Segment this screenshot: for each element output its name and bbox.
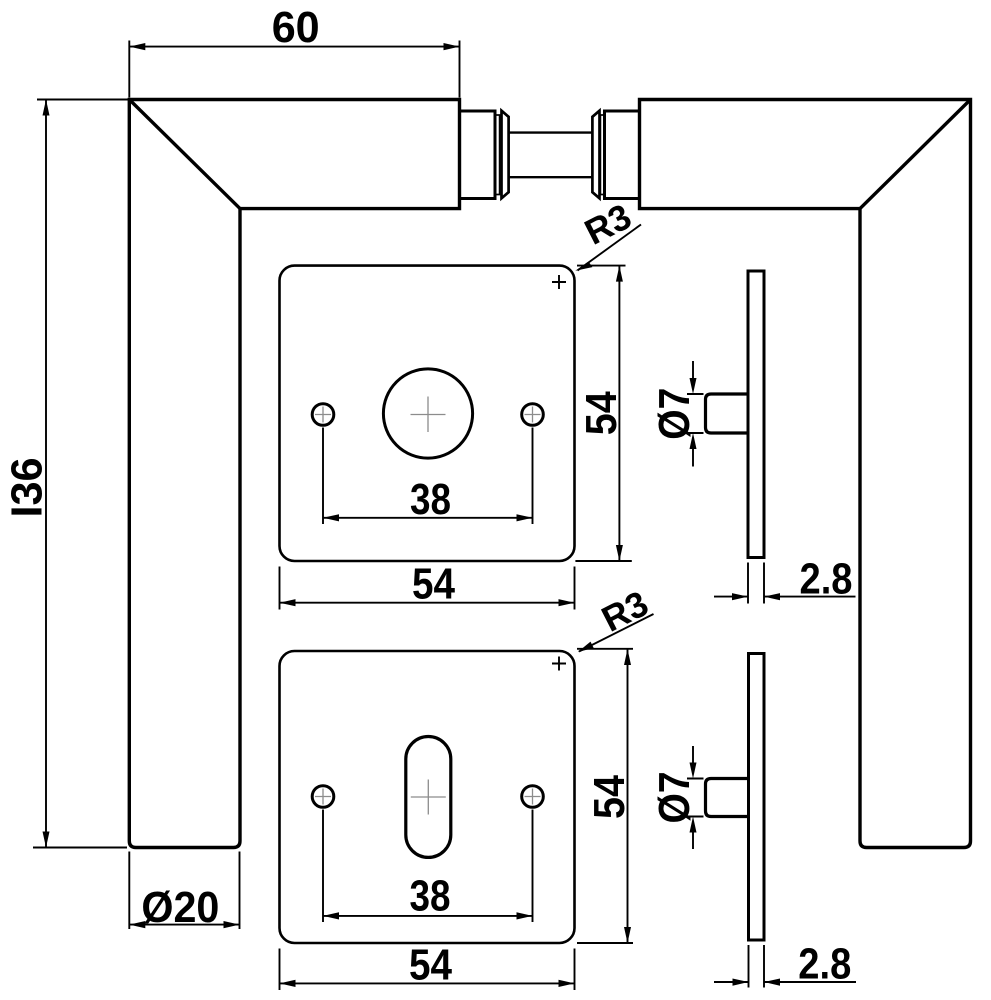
lower 2.8 arrowhead left xyxy=(733,979,749,986)
upper right screw hole crosshair xyxy=(525,407,541,423)
extension line diam20 left xyxy=(128,852,130,930)
upper rosette center hole circle xyxy=(383,369,472,458)
arrowhead 136 bottom xyxy=(43,832,50,848)
lower 2.8 extension left xyxy=(748,945,750,988)
svg-text:Ø7: Ø7 xyxy=(650,772,699,824)
lower right 54 extension bottom xyxy=(577,942,633,944)
arrowhead diam20 right xyxy=(224,921,240,928)
upper R3 leader xyxy=(578,225,642,271)
lower slot crosshair xyxy=(411,780,446,815)
lower rosette right screw hole xyxy=(522,786,544,808)
lower bottom 54 dimension line xyxy=(280,982,575,984)
upper 38 extension left xyxy=(322,428,324,525)
lower diam7 arrowhead bottom xyxy=(690,817,697,833)
upper rosette right screw hole xyxy=(522,404,544,426)
extension line 60 left xyxy=(128,41,130,98)
left handle neck xyxy=(460,111,496,199)
lower diam7 arrow line top xyxy=(692,746,694,764)
extension line diam20 right xyxy=(239,852,241,930)
upper 38 extension right xyxy=(532,428,534,525)
svg-text:54: 54 xyxy=(409,941,452,990)
arrowhead 136 top xyxy=(43,100,50,116)
lower 2.8 extension right xyxy=(763,945,765,988)
svg-text:I36: I36 xyxy=(2,458,51,518)
lower diam7 extension top xyxy=(687,778,704,780)
extension line 136 bottom xyxy=(33,847,127,849)
upper diam7 extension bottom xyxy=(687,432,704,434)
arrowhead diam20 left xyxy=(129,921,145,928)
svg-text:54: 54 xyxy=(585,775,634,819)
upper 2.8 dimension tail right xyxy=(764,596,856,598)
upper diam7 arrow line bottom xyxy=(692,448,694,467)
lower bottom 54 arrow right xyxy=(559,980,575,987)
left handle ring band xyxy=(495,115,499,195)
upper diam7 arrowhead top xyxy=(690,378,697,394)
lower right 54 arrow bottom xyxy=(624,927,631,943)
spindle top line xyxy=(509,131,593,133)
extension line 136 top xyxy=(37,99,128,101)
arrowhead 60 left xyxy=(129,43,145,50)
upper bottom 54 extension left xyxy=(279,567,281,610)
lower 2.8 arrowhead right xyxy=(764,979,780,986)
lower left screw hole crosshair xyxy=(315,789,331,805)
upper 2.8 extension left xyxy=(747,563,749,604)
upper right 54 extension bottom xyxy=(575,560,631,562)
svg-text:2.8: 2.8 xyxy=(798,940,851,989)
upper rosette left screw hole xyxy=(312,404,334,426)
right handle collar xyxy=(592,111,599,199)
upper side stub xyxy=(706,394,749,433)
upper bottom 54 extension right xyxy=(574,567,576,610)
upper diam7 arrow line top xyxy=(692,361,694,379)
upper diam7 extension top xyxy=(687,393,704,395)
svg-text:38: 38 xyxy=(410,475,451,524)
arrowhead 60 right xyxy=(444,43,460,50)
lower 38 extension left xyxy=(322,810,324,923)
upper 2.8 arrowhead right xyxy=(764,593,780,600)
lower 38 extension right xyxy=(532,810,534,923)
svg-text:38: 38 xyxy=(410,872,451,921)
lower diam7 arrowhead top xyxy=(690,763,697,779)
lower R3 leader xyxy=(579,614,654,652)
svg-text:60: 60 xyxy=(272,3,320,52)
upper 38 arrow right xyxy=(517,514,533,521)
lower 38 dimension line xyxy=(323,915,533,917)
upper 38 arrow left xyxy=(323,514,339,521)
upper right 54 arrow top xyxy=(616,266,623,282)
upper left screw hole crosshair xyxy=(315,407,331,423)
lower right 54 arrow top xyxy=(624,649,631,665)
svg-text:2.8: 2.8 xyxy=(800,554,853,603)
upper bottom 54 arrow right xyxy=(559,599,575,606)
upper right 54 extension top xyxy=(577,265,626,267)
upper right 54 arrow bottom xyxy=(616,545,623,561)
right handle neck xyxy=(605,111,640,199)
lower side plate xyxy=(749,654,765,941)
left handle mitre diagonal xyxy=(129,100,240,209)
left handle collar xyxy=(502,111,509,199)
right handle outline xyxy=(640,100,971,848)
lower right screw hole crosshair xyxy=(525,789,541,805)
lower rosette corner plus mark xyxy=(552,657,566,671)
right handle ring band xyxy=(600,115,604,195)
dimension line 136 xyxy=(45,100,47,848)
lower rosette plate xyxy=(280,651,575,943)
upper rosette plate xyxy=(280,266,575,561)
upper 2.8 extension right xyxy=(763,563,765,604)
upper rosette center crosshair xyxy=(411,397,446,433)
upper rosette corner plus mark xyxy=(552,275,566,289)
lower rosette left screw hole xyxy=(312,786,334,808)
lower bottom 54 arrow left xyxy=(280,980,296,987)
upper right 54 dimension line xyxy=(618,266,620,561)
upper 38 dimension line xyxy=(323,517,533,519)
dimension line diam20 xyxy=(129,924,239,926)
upper 2.8 arrowhead left xyxy=(732,593,748,600)
right handle mitre diagonal xyxy=(860,100,971,209)
svg-text:Ø7: Ø7 xyxy=(650,388,699,440)
upper side plate xyxy=(748,271,764,558)
lower right 54 extension top xyxy=(577,648,633,650)
lower diam7 extension bottom xyxy=(687,816,704,818)
upper diam7 arrowhead bottom xyxy=(690,433,697,449)
lower 38 arrow right xyxy=(517,912,533,919)
spindle bottom line xyxy=(509,176,593,178)
upper bottom 54 dimension line xyxy=(280,602,575,604)
upper bottom 54 arrow left xyxy=(280,599,296,606)
svg-text:54: 54 xyxy=(412,560,455,609)
lower diam7 arrow line bottom xyxy=(692,832,694,850)
svg-text:54: 54 xyxy=(577,391,626,435)
lower side stub xyxy=(706,779,749,817)
lower 38 arrow left xyxy=(323,912,339,919)
dimension line 60 xyxy=(129,46,459,48)
lower rosette key slot xyxy=(406,737,451,858)
lower 2.8 dimension tail left xyxy=(714,981,749,983)
lower R3 arrowhead xyxy=(578,642,594,652)
lower 2.8 dimension tail right xyxy=(764,981,856,983)
svg-text:Ø20: Ø20 xyxy=(141,883,219,932)
lower bottom 54 extension left xyxy=(279,949,281,991)
left handle outline xyxy=(129,100,459,848)
lower bottom 54 extension right xyxy=(574,949,576,991)
upper R3 arrowhead xyxy=(575,262,592,271)
upper 2.8 dimension tail left xyxy=(714,596,748,598)
extension line 60 right xyxy=(459,41,461,98)
lower right 54 dimension line xyxy=(627,649,629,943)
